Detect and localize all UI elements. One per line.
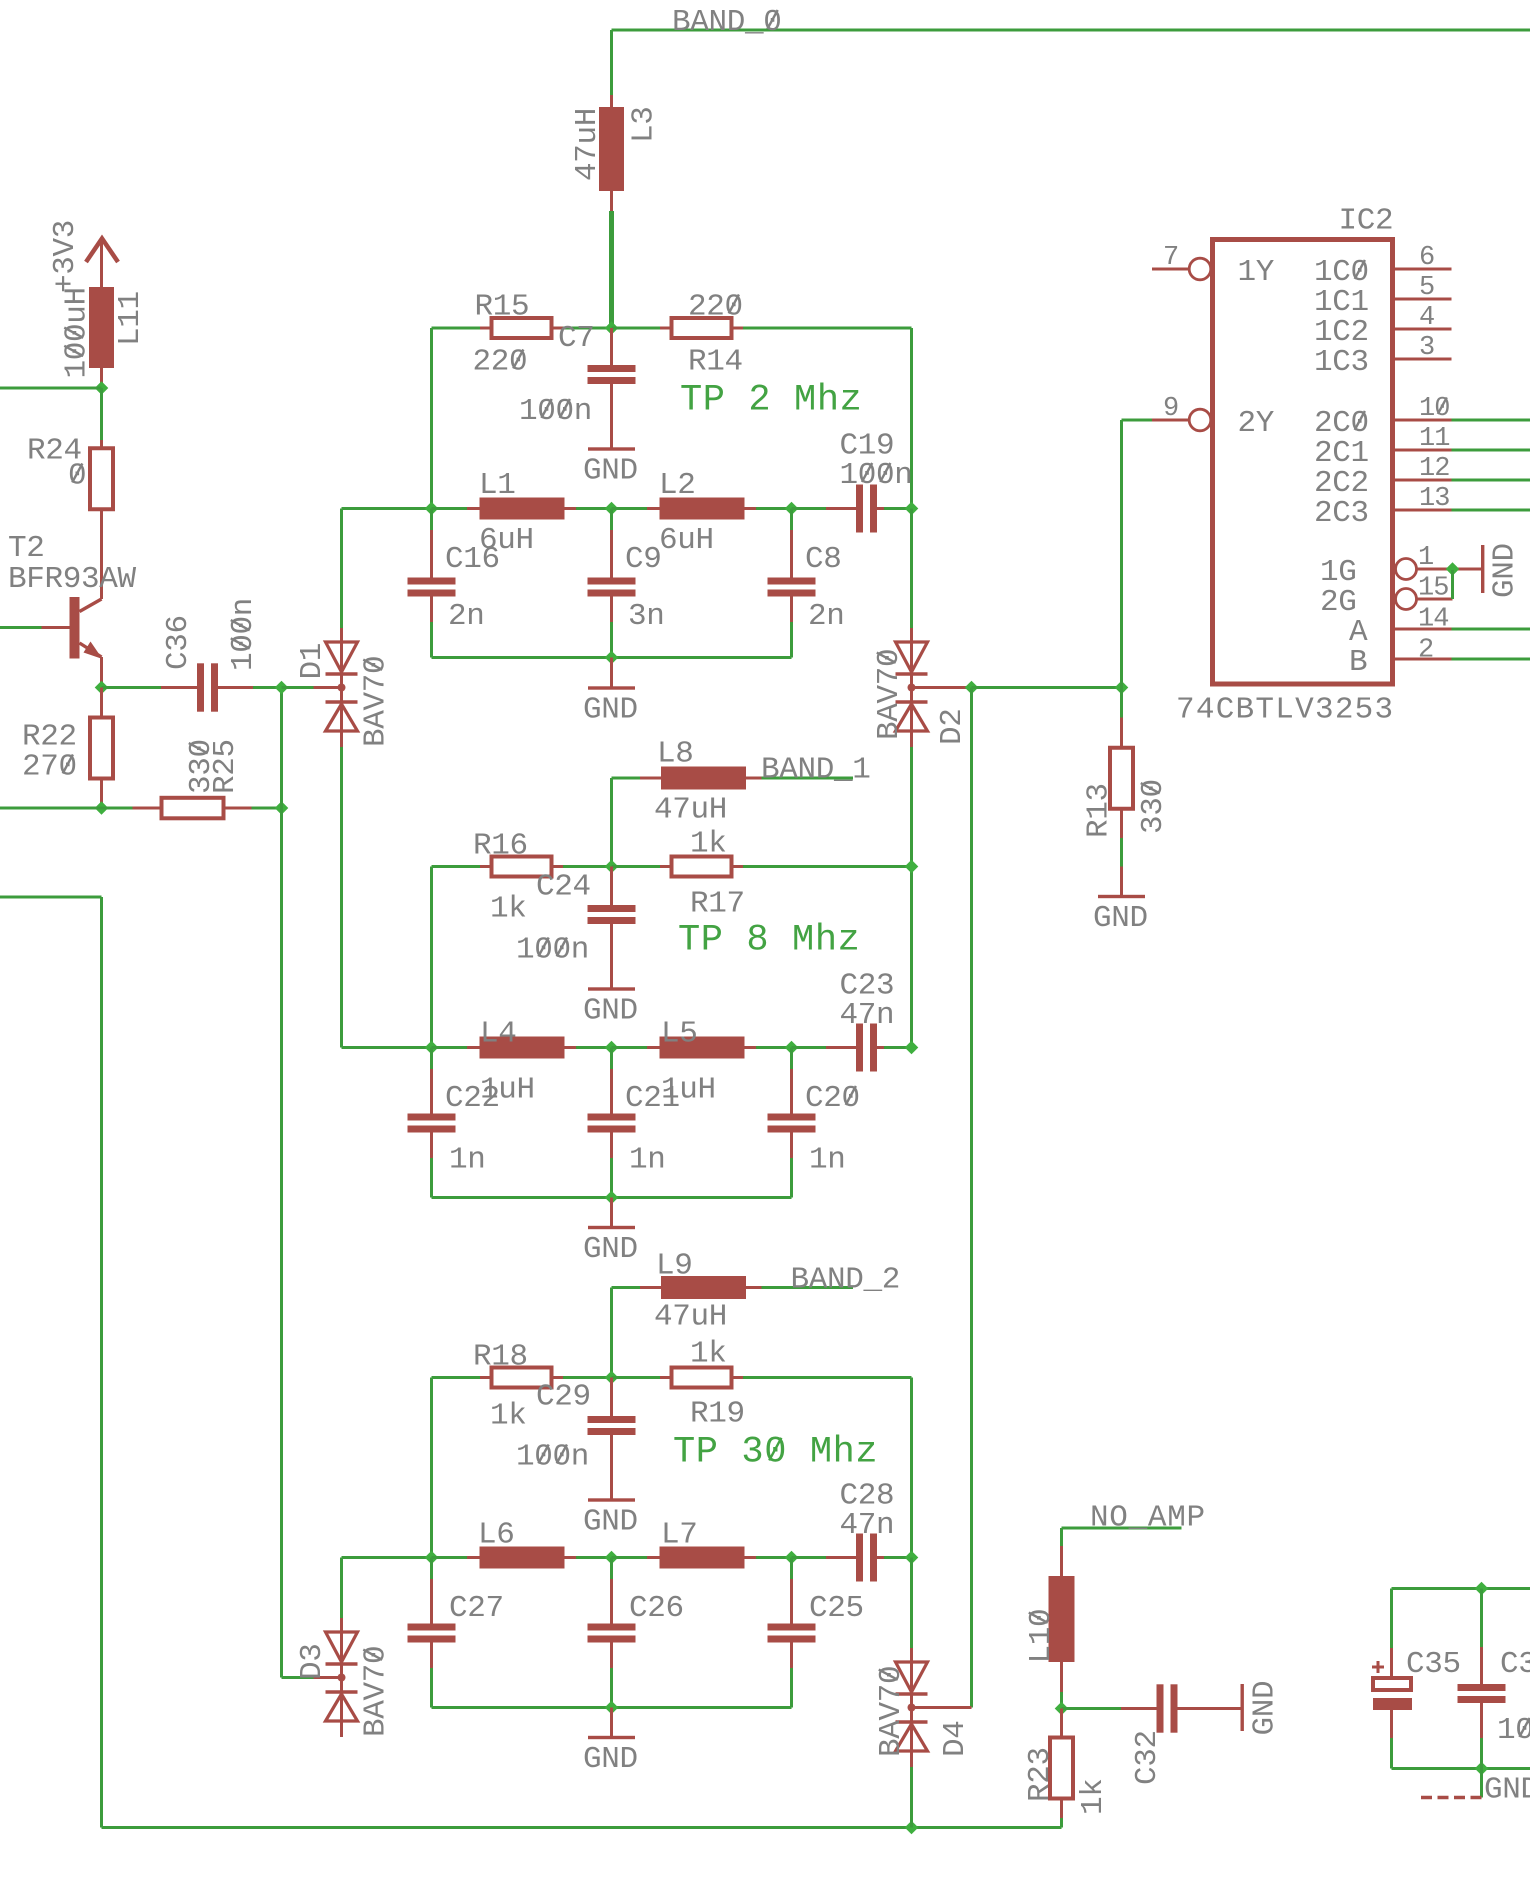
svg-text:GND: GND [1247, 1681, 1282, 1736]
svg-text:1k: 1k [490, 1399, 527, 1434]
svg-text:D3: D3 [295, 1643, 330, 1680]
svg-text:L9: L9 [656, 1249, 693, 1284]
svg-text:6: 6 [1419, 243, 1434, 273]
svg-text:NO_AMP: NO_AMP [1090, 1501, 1206, 1536]
svg-text:R13: R13 [1081, 783, 1116, 838]
svg-text:100n: 100n [226, 598, 261, 671]
svg-text:2: 2 [1418, 635, 1433, 665]
svg-text:IC2: IC2 [1339, 204, 1394, 239]
svg-text:R19: R19 [690, 1397, 745, 1432]
svg-text:7: 7 [1163, 243, 1178, 273]
svg-text:1n: 1n [449, 1143, 486, 1178]
svg-text:100n: 100n [1497, 1713, 1530, 1748]
svg-text:10: 10 [1419, 394, 1449, 424]
svg-text:D1: D1 [295, 643, 330, 680]
svg-text:100uH: 100uH [59, 287, 94, 378]
svg-text:D2: D2 [935, 708, 970, 745]
svg-text:R23: R23 [1023, 1747, 1058, 1802]
svg-text:1C3: 1C3 [1314, 345, 1369, 380]
svg-text:BFR93AW: BFR93AW [8, 562, 137, 597]
svg-text:GND: GND [583, 454, 638, 489]
svg-text:11: 11 [1419, 424, 1449, 454]
svg-text:R15: R15 [475, 290, 530, 325]
svg-text:14: 14 [1418, 604, 1448, 634]
svg-text:0: 0 [68, 459, 86, 494]
svg-text:47uH: 47uH [654, 793, 727, 828]
svg-text:4: 4 [1419, 303, 1434, 333]
svg-text:47uH: 47uH [570, 108, 605, 181]
svg-text:L2: L2 [659, 468, 696, 503]
svg-text:T2: T2 [8, 531, 45, 566]
svg-text:R25: R25 [208, 739, 243, 794]
svg-text:C35: C35 [1406, 1647, 1461, 1682]
svg-text:100n: 100n [516, 933, 589, 968]
svg-text:1k: 1k [690, 827, 727, 862]
svg-text:GND: GND [583, 693, 638, 728]
svg-text:C16: C16 [445, 542, 500, 577]
svg-text:6uH: 6uH [659, 523, 714, 558]
svg-text:220: 220 [473, 345, 528, 380]
svg-text:BAV70: BAV70 [872, 649, 907, 740]
svg-text:L6: L6 [478, 1518, 515, 1553]
svg-text:BAND_1: BAND_1 [761, 753, 871, 788]
svg-text:GND: GND [583, 1742, 638, 1777]
svg-text:BAV70: BAV70 [874, 1666, 909, 1757]
svg-text:13: 13 [1419, 484, 1449, 514]
svg-text:2n: 2n [808, 599, 845, 634]
svg-text:C24: C24 [536, 870, 591, 905]
svg-text:B: B [1349, 645, 1367, 680]
svg-text:47n: 47n [840, 1508, 895, 1543]
svg-text:74CBTLV3253: 74CBTLV3253 [1176, 693, 1394, 728]
svg-text:5: 5 [1419, 273, 1434, 303]
svg-text:C26: C26 [629, 1591, 684, 1626]
svg-text:2C3: 2C3 [1314, 496, 1369, 531]
svg-text:C32: C32 [1130, 1730, 1165, 1785]
svg-text:L4: L4 [480, 1017, 517, 1052]
svg-text:C7: C7 [558, 321, 595, 356]
svg-text:L1: L1 [479, 468, 516, 503]
svg-text:L11: L11 [113, 291, 148, 346]
svg-text:R17: R17 [690, 887, 745, 922]
svg-text:TP 2 Mhz: TP 2 Mhz [680, 380, 862, 422]
svg-text:C22: C22 [445, 1081, 500, 1116]
svg-text:GND: GND [583, 1505, 638, 1540]
svg-text:1k: 1k [690, 1337, 727, 1372]
svg-text:C20: C20 [805, 1081, 860, 1116]
svg-text:C29: C29 [536, 1380, 591, 1415]
svg-text:1: 1 [1418, 543, 1433, 573]
svg-text:L10: L10 [1024, 1609, 1059, 1664]
svg-text:L5: L5 [661, 1017, 698, 1052]
svg-text:BAV70: BAV70 [358, 656, 393, 747]
svg-text:BAV70: BAV70 [358, 1646, 393, 1737]
svg-text:C36: C36 [161, 615, 196, 670]
svg-text:9: 9 [1163, 394, 1178, 424]
svg-text:100n: 100n [840, 458, 913, 493]
svg-text:BAND_2: BAND_2 [791, 1263, 901, 1298]
svg-text:C9: C9 [625, 542, 662, 577]
svg-text:GND: GND [583, 1232, 638, 1267]
svg-text:R16: R16 [473, 829, 528, 864]
svg-text:1k: 1k [1076, 1778, 1111, 1815]
svg-text:+3V3: +3V3 [48, 220, 83, 293]
svg-text:1n: 1n [809, 1143, 846, 1178]
svg-text:1k: 1k [490, 892, 527, 927]
svg-text:L8: L8 [657, 737, 694, 772]
svg-text:C8: C8 [805, 542, 842, 577]
svg-text:220: 220 [688, 290, 743, 325]
svg-text:R14: R14 [688, 345, 743, 380]
svg-text:GND: GND [583, 994, 638, 1029]
svg-text:2n: 2n [448, 599, 485, 634]
svg-text:C25: C25 [809, 1591, 864, 1626]
svg-text:330: 330 [1136, 779, 1171, 834]
svg-text:100n: 100n [519, 394, 592, 429]
svg-text:1Y: 1Y [1238, 255, 1275, 290]
svg-text:C34: C34 [1500, 1647, 1530, 1682]
svg-text:3n: 3n [628, 599, 665, 634]
svg-text:270: 270 [22, 750, 77, 785]
svg-text:15: 15 [1418, 573, 1448, 603]
svg-text:GND: GND [1484, 1773, 1530, 1808]
svg-text:1n: 1n [629, 1143, 666, 1178]
svg-text:C21: C21 [625, 1081, 680, 1116]
svg-text:47n: 47n [840, 998, 895, 1033]
svg-text:GND: GND [1487, 543, 1522, 598]
svg-text:D4: D4 [938, 1720, 973, 1757]
svg-text:12: 12 [1419, 454, 1449, 484]
svg-text:L3: L3 [626, 106, 661, 143]
svg-text:TP 30 Mhz: TP 30 Mhz [673, 1432, 878, 1474]
svg-text:L7: L7 [661, 1518, 698, 1553]
svg-text:TP 8 Mhz: TP 8 Mhz [678, 920, 860, 962]
svg-text:100n: 100n [516, 1440, 589, 1475]
svg-text:BAND_0: BAND_0 [672, 5, 782, 40]
svg-text:R18: R18 [473, 1340, 528, 1375]
svg-text:3: 3 [1419, 333, 1434, 363]
svg-text:2Y: 2Y [1238, 406, 1275, 441]
svg-text:47uH: 47uH [654, 1300, 727, 1335]
svg-text:GND: GND [1093, 901, 1148, 936]
svg-text:C27: C27 [449, 1591, 504, 1626]
